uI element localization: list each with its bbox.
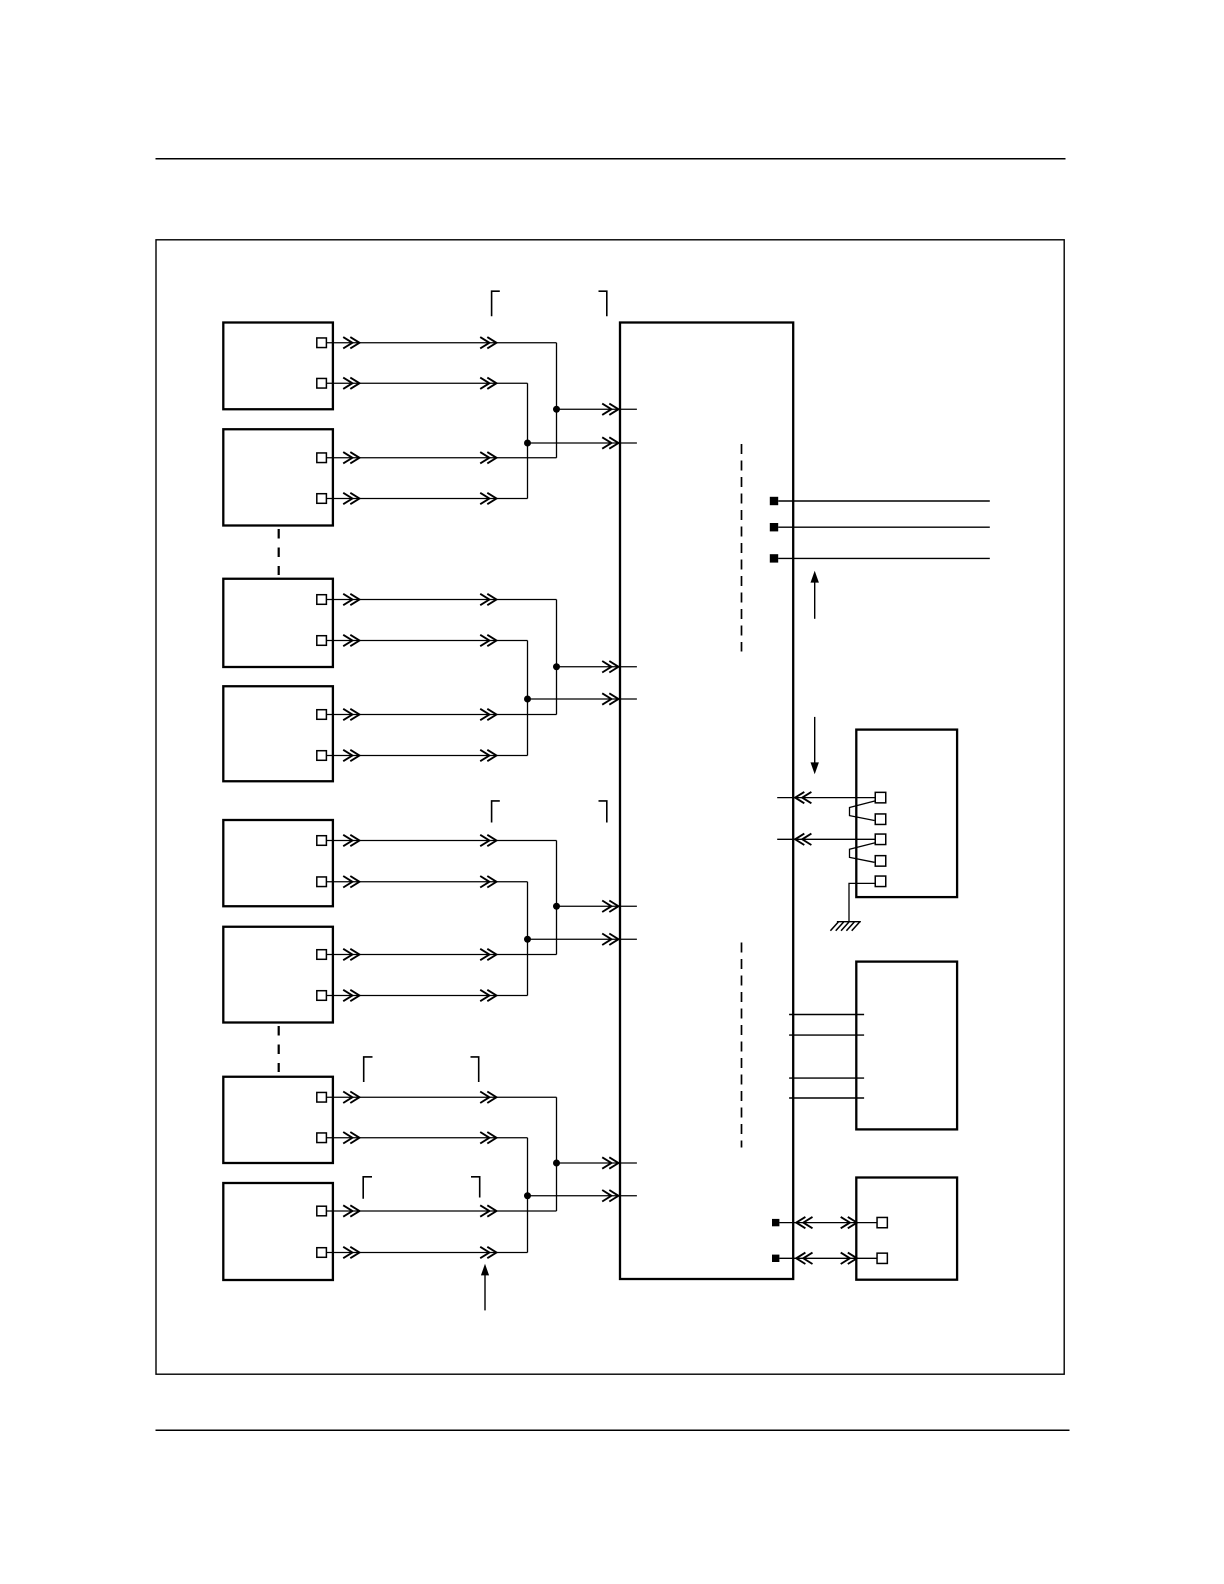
bidirectional wire U1 to J3.1 <box>779 1217 877 1228</box>
pin B3.2 <box>317 636 327 646</box>
wire g1d (pin4 to node B1) <box>326 493 527 504</box>
pin J3.1 <box>877 1217 887 1227</box>
pin J1.2 <box>875 814 886 825</box>
pin J1.1 <box>875 792 886 803</box>
block B4 (left device 4) <box>223 686 333 781</box>
pin B8.2 <box>317 1248 327 1258</box>
block B8 (left device 8) <box>223 1183 333 1280</box>
wire U1 to J1.1 <box>777 792 875 803</box>
block B3 (left device 3) <box>223 579 333 667</box>
block B2 (left device 2) <box>223 429 333 525</box>
signal line U1 to J2 #3 <box>789 1077 864 1079</box>
block B7 (left device 7) <box>223 1077 333 1163</box>
pin J1.3 <box>875 834 886 845</box>
label bracket pair 3 left <box>364 1057 373 1082</box>
bidirectional wire U1 to J3.2 <box>779 1253 877 1264</box>
wire vertical A2 <box>556 600 558 715</box>
bus entry wire A4 into U1 <box>557 1157 637 1168</box>
wire g4c (pin3 to node A4) <box>326 1205 556 1216</box>
bus tap square T2 on U1 <box>770 523 778 531</box>
wire g2c (pin3 to node A2) <box>326 709 556 720</box>
arrow down (data direction) <box>811 717 819 774</box>
ground <box>830 922 861 931</box>
bus tap square T3 on U1 <box>770 554 778 562</box>
pin B7.1 <box>317 1092 327 1102</box>
wire g3d (pin4 to node B3) <box>326 990 527 1001</box>
junction A4 <box>553 1160 560 1167</box>
wire g1a (pin1 to node A1) <box>326 337 556 348</box>
block J3 (right transceiver) <box>856 1178 957 1280</box>
label bracket pair 1 right <box>599 291 607 316</box>
wire g1c (pin3 to node A1) <box>326 452 556 463</box>
wire vertical A3 <box>556 841 558 955</box>
bus line T1 to right <box>778 500 990 502</box>
pin B3.1 <box>317 595 327 605</box>
link J1.1 to J1.2 <box>850 801 876 821</box>
bus entry wire B4 into U1 <box>528 1190 637 1202</box>
wire g2a (pin1 to node A2) <box>326 594 556 605</box>
wire g2d (pin4 to node B2) <box>326 750 527 761</box>
bus entry wire A3 into U1 <box>557 901 637 913</box>
bus entry wire B3 into U1 <box>528 934 637 946</box>
wire J1.5 to ground <box>849 883 875 921</box>
signal line U1 to J2 #2 <box>789 1034 864 1036</box>
block J2 (right interface) <box>856 962 957 1130</box>
junction B4 <box>524 1192 531 1199</box>
label bracket pair 2 left <box>492 801 500 823</box>
wire vertical B1 <box>527 383 529 498</box>
pin B4.2 <box>317 751 327 761</box>
wire g3c (pin3 to node A3) <box>326 949 556 960</box>
pin B2.1 <box>317 453 327 463</box>
wire vertical B4 <box>527 1138 529 1253</box>
label bracket pair 4 left <box>363 1177 372 1199</box>
pin B2.2 <box>317 494 327 504</box>
tap square on U1 for J3 #2 <box>772 1255 779 1262</box>
wire g1b (pin2 to node B1) <box>326 378 527 389</box>
wire g4a (pin1 to node A4) <box>326 1092 556 1104</box>
diagram frame <box>156 240 1064 1374</box>
arrow up (bottom input) <box>481 1264 489 1311</box>
junction B3 <box>524 936 531 943</box>
signal line U1 to J2 #4 <box>789 1097 864 1099</box>
pin J1.5 <box>875 876 886 887</box>
junction A1 <box>553 406 560 413</box>
pin B7.2 <box>317 1133 327 1143</box>
junction A3 <box>553 903 560 910</box>
pin J1.4 <box>875 856 886 867</box>
link J1.3 to J1.4 <box>850 843 876 863</box>
wire vertical B3 <box>527 882 529 996</box>
bottom rule <box>156 1429 1070 1431</box>
top rule <box>156 158 1066 160</box>
dashed bus continuation inside U1 (upper) <box>741 444 743 652</box>
bus entry wire B2 into U1 <box>528 693 637 704</box>
label bracket pair 1 left <box>492 291 500 316</box>
pin B1.1 <box>317 338 327 348</box>
wire vertical A1 <box>556 343 558 458</box>
junction A2 <box>553 663 560 670</box>
bus entry wire A2 into U1 <box>557 661 637 673</box>
block B5 (left device 5) <box>223 820 333 906</box>
label bracket pair 3 right <box>471 1057 479 1082</box>
pin B5.1 <box>317 836 327 846</box>
signal line U1 to J2 #1 <box>789 1014 864 1016</box>
bus line T3 to right <box>778 557 990 559</box>
junction B1 <box>524 440 531 447</box>
dashed continuation between B6 and B7 <box>278 1026 280 1072</box>
wire g4d (pin4 to node B4) <box>326 1247 527 1258</box>
arrow up (data direction) <box>811 571 819 619</box>
pin J3.2 <box>877 1253 887 1263</box>
pin B6.1 <box>317 950 327 960</box>
tap square on U1 for J3 #1 <box>772 1219 779 1226</box>
pin B8.1 <box>317 1206 327 1216</box>
block J1 (right connector, 5 pins) <box>856 730 957 898</box>
wire vertical A4 <box>556 1097 558 1211</box>
wire g2b (pin2 to node B2) <box>326 635 527 646</box>
pin B4.1 <box>317 710 327 720</box>
label bracket pair 2 right <box>599 801 607 823</box>
dashed continuation between B2 and B3 <box>278 529 280 575</box>
wire g3b (pin2 to node B3) <box>326 876 527 888</box>
bus entry wire B1 into U1 <box>528 437 637 448</box>
pin B6.2 <box>317 991 327 1001</box>
pin B5.2 <box>317 877 327 887</box>
label bracket pair 4 right <box>471 1177 480 1198</box>
bus entry wire A1 into U1 <box>557 404 637 415</box>
wire U1 to J1.3 <box>777 834 875 845</box>
wire g3a (pin1 to node A3) <box>326 835 556 846</box>
junction B2 <box>524 696 531 703</box>
dashed bus continuation inside U1 (lower) <box>741 943 743 1148</box>
wire g4b (pin2 to node B4) <box>326 1132 527 1144</box>
bus tap square T1 on U1 <box>770 497 778 505</box>
block B6 (left device 6) <box>223 927 333 1023</box>
main block U1 (central controller) <box>620 323 793 1280</box>
pin B1.2 <box>317 378 327 388</box>
block B1 (left device 1) <box>223 323 333 410</box>
bus line T2 to right <box>778 526 990 528</box>
wire vertical B2 <box>527 641 529 756</box>
